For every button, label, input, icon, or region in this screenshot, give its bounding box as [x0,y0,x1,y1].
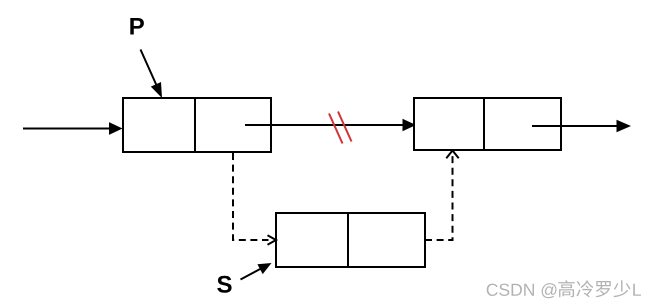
wire: next pointer out of successor node [532,120,631,133]
wire: dashed next pointer from node S up to successor node [425,151,459,241]
node box P: two-cell linked-list node [123,98,271,152]
wire: dashed new pointer from node P down to node S [233,153,276,245]
node box successor: two-cell linked-list node [414,98,561,150]
label S [217,276,231,293]
arrow: S pointer to node box S [241,263,272,280]
label P [130,18,144,35]
arrow: P pointer to node box P [141,50,163,99]
node box S: two-cell linked-list node [276,213,425,267]
wire: old next pointer from node P to successor node (broken link) [245,119,416,131]
watermark: CSDN @高冷罗少L [487,280,641,298]
wire: list entry arrow into node P [23,122,123,135]
break mark: red double slash on old link [329,112,352,144]
